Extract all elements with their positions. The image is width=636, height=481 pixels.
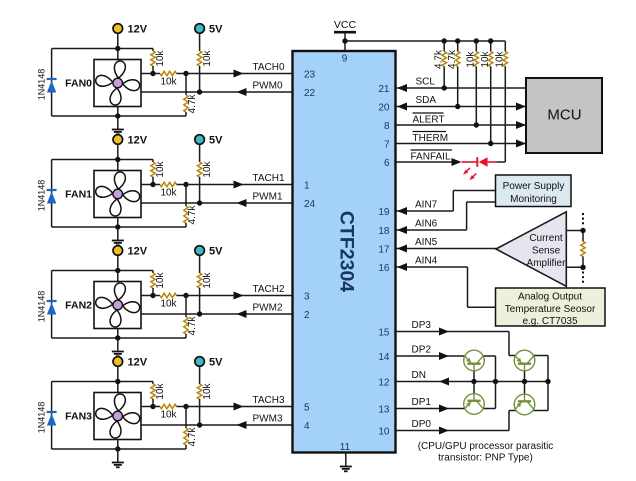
svg-text:13: 13 <box>378 404 390 415</box>
svg-text:19: 19 <box>378 207 390 218</box>
wire DN net <box>396 381 549 383</box>
junction 12V rail (row 0) <box>115 46 120 51</box>
arrow DP3 <box>439 328 449 336</box>
wire AIN6 net <box>396 202 496 230</box>
wire fan tach stub (row 1) <box>141 184 153 186</box>
wire 12V drop to fan (row 0) <box>117 34 119 60</box>
resistor 10k tach pull-up to 12V (row 3) <box>151 382 155 407</box>
svg-text:4.7k: 4.7k <box>433 49 444 69</box>
resistor 10k tach pull-up to 12V (row 2) <box>151 271 155 296</box>
svg-text:AIN7: AIN7 <box>415 200 438 211</box>
svg-text:10k: 10k <box>155 271 166 288</box>
svg-text:10k: 10k <box>202 160 213 177</box>
resistor 4.7k tach to ground (row 2) <box>184 296 188 339</box>
MCU block <box>526 78 602 153</box>
resistor shunt <box>581 231 585 268</box>
junction SCL pull-up <box>442 85 447 90</box>
junction DN/Q1Q3 collector <box>493 379 498 384</box>
wire fan tach stub (row 0) <box>141 73 153 75</box>
resistor 10k pwm pull-up to 5V (row 0) <box>197 34 201 92</box>
wire 12V rail (row 2) <box>52 270 153 272</box>
transistor Q4 (PNP) <box>514 394 535 415</box>
svg-text:4: 4 <box>304 421 310 432</box>
junction tach pull-up (row 3) <box>150 404 155 409</box>
arrow TACH0 <box>234 70 244 78</box>
svg-text:TACH0: TACH0 <box>253 62 285 73</box>
svg-text:7: 7 <box>384 139 390 150</box>
wire Q1 base stem <box>473 371 475 382</box>
arrow SDA into MCU <box>516 103 526 111</box>
resistor 4.7k pull-up (col 1) <box>442 41 446 88</box>
svg-text:AIN4: AIN4 <box>415 256 438 267</box>
resistor 10k tach pull-up to 12V (row 0) <box>151 49 155 74</box>
svg-text:24: 24 <box>304 199 316 210</box>
wire DP2 net <box>396 355 471 357</box>
svg-text:SCL: SCL <box>416 77 436 88</box>
12V supply (fan row 1) <box>113 135 123 145</box>
wire TACH2 line <box>186 295 293 297</box>
op-amp current sense amplifier <box>496 212 566 286</box>
wire fan tach stub (row 2) <box>141 295 153 297</box>
resistor 4.7k tach to ground (row 1) <box>184 185 188 228</box>
wire VCC pull-up rail <box>345 40 505 42</box>
svg-text:1N4148: 1N4148 <box>36 291 46 323</box>
wire Q4 base stem <box>524 382 526 395</box>
ground (chip pin 11) <box>340 453 352 472</box>
LED emission arrows <box>463 168 476 180</box>
svg-text:2: 2 <box>304 310 310 321</box>
op-amp/controller IC U1 CTF2304 <box>293 51 396 453</box>
junction pwm pull-up (row 0) <box>197 89 202 94</box>
resistor 10k pwm pull-up to 5V (row 3) <box>197 367 201 425</box>
diode 1N4148 (row 1) <box>47 160 57 228</box>
wire PWM3 line <box>141 424 293 426</box>
svg-text:1N4148: 1N4148 <box>36 69 46 101</box>
wire TACH0 line <box>186 73 293 75</box>
wire AIN5 net <box>396 248 497 250</box>
wire AIN4 net <box>396 267 496 307</box>
svg-text:15: 15 <box>378 327 390 338</box>
wire fan bottom stem (row 0) <box>117 107 119 117</box>
wire ground rail (row 2) <box>52 337 186 339</box>
ground symbol (row 2) <box>112 338 124 356</box>
diode 1N4148 (row 2) <box>47 271 57 339</box>
junction pwm pull-up (row 2) <box>197 311 202 316</box>
svg-text:10k: 10k <box>160 299 177 310</box>
fan box FAN1 <box>94 171 141 218</box>
svg-text:3: 3 <box>304 291 310 302</box>
label ALERT (active low) <box>413 113 445 126</box>
5V supply (fan row 3) <box>195 357 205 367</box>
arrow TACH2 <box>234 292 244 300</box>
svg-text:4.7k: 4.7k <box>187 316 198 336</box>
wire SDA <box>396 106 527 108</box>
junction tach node (row 0) <box>183 71 188 76</box>
svg-text:10k: 10k <box>480 50 491 67</box>
resistor 10k pwm pull-up to 5V (row 2) <box>197 256 201 314</box>
svg-text:e.g. CT7035: e.g. CT7035 <box>522 316 577 327</box>
arrow PWM2 <box>237 310 247 318</box>
wire sense- stub <box>566 266 583 268</box>
wire dashed supply below shunt <box>582 272 584 286</box>
svg-text:PWM0: PWM0 <box>253 81 283 92</box>
resistor 10k series tach (row 2) <box>153 293 186 297</box>
arrow AIN6 into chip <box>397 226 407 234</box>
svg-text:1N4148: 1N4148 <box>36 180 46 212</box>
svg-text:TACH3: TACH3 <box>253 395 285 406</box>
svg-text:Sense: Sense <box>532 246 561 257</box>
arrow DN into chip <box>439 378 449 386</box>
svg-text:18: 18 <box>378 226 390 237</box>
svg-text:DP0: DP0 <box>412 419 432 430</box>
svg-text:1: 1 <box>304 180 310 191</box>
junction ground rail (row 0) <box>115 113 120 118</box>
wire THERM <box>396 143 527 145</box>
wire FANFAIL <box>396 161 453 163</box>
wire PWM1 line <box>141 202 293 204</box>
wire ground rail (row 1) <box>52 226 186 228</box>
svg-text:10k: 10k <box>466 50 477 67</box>
svg-text:12V: 12V <box>128 135 148 147</box>
wire 12V drop to fan (row 3) <box>117 367 119 393</box>
wire ALERT <box>396 124 527 126</box>
svg-text:AIN6: AIN6 <box>415 219 438 230</box>
junction tach node (row 2) <box>183 293 188 298</box>
junction DN/Q2Q4 collector <box>545 379 550 384</box>
svg-text:VCC: VCC <box>334 19 357 31</box>
fan blades and hub (FAN3) <box>95 393 140 438</box>
svg-text:16: 16 <box>378 263 390 274</box>
12V supply (fan row 2) <box>113 246 123 256</box>
junction 12V rail (row 3) <box>115 379 120 384</box>
wire fan tach stub (row 3) <box>141 406 153 408</box>
svg-text:transistor: PNP Type): transistor: PNP Type) <box>438 453 533 464</box>
svg-text:Current: Current <box>529 233 563 244</box>
junction 12V rail (row 2) <box>115 268 120 273</box>
svg-text:PWM1: PWM1 <box>253 192 283 203</box>
junction tach pull-up (row 2) <box>150 293 155 298</box>
resistor 10k pull-up (col 5) <box>503 41 507 162</box>
svg-text:12V: 12V <box>128 24 148 36</box>
svg-text:10k: 10k <box>202 49 213 66</box>
fan box FAN3 <box>94 393 141 440</box>
svg-text:5V: 5V <box>209 357 223 369</box>
transistor Q1 (PNP) <box>464 350 485 371</box>
diode 1N4148 (row 0) <box>47 49 57 117</box>
svg-text:FAN0: FAN0 <box>65 78 92 90</box>
svg-text:FAN3: FAN3 <box>65 411 92 423</box>
resistor 10k tach pull-up to 12V (row 1) <box>151 160 155 185</box>
svg-text:10k: 10k <box>160 410 177 421</box>
junction SDA pull-up <box>455 104 460 109</box>
svg-text:10k: 10k <box>495 50 506 67</box>
arrow AIN7 into chip <box>397 207 407 215</box>
arrow TACH3 <box>234 403 244 411</box>
VCC rail symbol <box>334 31 356 34</box>
junction sense+ <box>580 228 585 233</box>
diode 1N4148 (row 3) <box>47 382 57 450</box>
wire ground rail (row 3) <box>52 448 186 450</box>
svg-text:Power Supply: Power Supply <box>503 181 565 192</box>
12V supply (fan row 0) <box>113 24 123 34</box>
svg-text:THERM: THERM <box>413 133 449 144</box>
svg-text:23: 23 <box>304 69 316 80</box>
svg-text:Temperature Seosor: Temperature Seosor <box>505 304 596 315</box>
svg-text:9: 9 <box>342 54 348 65</box>
svg-text:21: 21 <box>378 84 390 95</box>
transistor Q2 (PNP) <box>514 350 535 371</box>
wire Q3 base stem <box>473 382 475 394</box>
fan box FAN0 <box>94 60 141 107</box>
svg-text:10: 10 <box>378 426 390 437</box>
junction ALERT pull-up <box>474 122 479 127</box>
12V supply (fan row 3) <box>113 357 123 367</box>
svg-text:Analog Output: Analog Output <box>518 292 582 303</box>
svg-text:TACH1: TACH1 <box>253 173 285 184</box>
wire fan bottom stem (row 2) <box>117 329 119 339</box>
arrow PWM1 <box>237 199 247 207</box>
label THERM (active low) <box>413 132 449 145</box>
note CPU/GPU parasitic transistor <box>418 441 554 464</box>
svg-text:(CPU/GPU processor parasitic: (CPU/GPU processor parasitic <box>418 441 554 452</box>
wire 12V drop to fan (row 1) <box>117 145 119 171</box>
svg-text:12V: 12V <box>128 246 148 258</box>
wire SCL <box>396 87 527 89</box>
svg-text:DP1: DP1 <box>412 397 432 408</box>
fan blades and hub (FAN0) <box>95 60 140 105</box>
svg-text:Monitoring: Monitoring <box>510 194 557 205</box>
fan blades and hub (FAN1) <box>95 171 140 216</box>
wire Q2/Q4 collector to DN <box>529 356 548 411</box>
svg-text:17: 17 <box>378 244 390 255</box>
ground symbol (row 0) <box>112 116 124 134</box>
svg-text:10k: 10k <box>155 160 166 177</box>
wire ground rail (row 0) <box>52 115 186 117</box>
svg-text:10k: 10k <box>202 271 213 288</box>
wire Q2 base stem <box>524 371 526 382</box>
junction DN/Q1Q3 base <box>471 379 476 384</box>
svg-text:4.7k: 4.7k <box>187 427 198 447</box>
arrow TACH1 <box>234 181 244 189</box>
svg-text:FANFAIL: FANFAIL <box>411 152 451 163</box>
label Analog Output Temperature Seosor e.g. CT7035 <box>505 292 596 328</box>
wire DP3 net <box>396 332 521 356</box>
wire fan bottom stem (row 3) <box>117 440 119 450</box>
junction tach pull-up (row 1) <box>150 182 155 187</box>
junction tach pull-up (row 0) <box>150 71 155 76</box>
svg-text:DN: DN <box>412 370 426 381</box>
arrow THERM into MCU <box>516 140 526 148</box>
svg-text:20: 20 <box>378 102 390 113</box>
junction DN/Q2Q4 base <box>522 379 527 384</box>
wire VCC to pin 9 <box>344 32 346 51</box>
svg-text:FAN2: FAN2 <box>65 300 92 312</box>
arrow SDA into chip <box>397 103 407 111</box>
arrow AIN5 into chip <box>397 245 407 253</box>
svg-text:AIN5: AIN5 <box>415 237 438 248</box>
svg-text:PWM2: PWM2 <box>253 303 283 314</box>
wire DP0 net <box>396 411 521 431</box>
svg-text:5V: 5V <box>209 24 223 36</box>
wire 12V drop to fan (row 2) <box>117 256 119 282</box>
svg-text:22: 22 <box>304 88 316 99</box>
wire TACH1 line <box>186 184 293 186</box>
ground symbol (row 3) <box>112 449 124 467</box>
wire PWM0 line <box>141 91 293 93</box>
svg-text:10k: 10k <box>202 382 213 399</box>
wire AIN7 net <box>396 191 496 212</box>
junction sense- <box>580 265 585 270</box>
svg-text:11: 11 <box>340 442 351 453</box>
wire TACH3 line <box>186 406 293 408</box>
transistor Q3 (PNP) <box>464 394 485 415</box>
svg-text:14: 14 <box>378 352 390 363</box>
resistor 10k pull-up (col 3) <box>474 41 478 125</box>
wire PWM2 line <box>141 313 293 315</box>
fan blades and hub (FAN2) <box>95 282 140 327</box>
junction ground rail (row 3) <box>115 446 120 451</box>
label Current Sense Amplifier <box>527 233 567 269</box>
svg-text:MCU: MCU <box>547 107 581 124</box>
resistor 4.7k tach to ground (row 0) <box>184 74 188 117</box>
resistor 10k series tach (row 3) <box>153 404 186 408</box>
junction ground rail (row 2) <box>115 335 120 340</box>
wire sense+ stub <box>566 230 583 232</box>
resistor 4.7k tach to ground (row 3) <box>184 407 188 450</box>
wire 12V rail (row 1) <box>52 159 153 161</box>
junction rail col 1 <box>442 38 447 43</box>
label Power Supply Monitoring <box>503 181 565 205</box>
svg-text:6: 6 <box>384 158 390 169</box>
wire DP1 net <box>396 408 471 410</box>
ground symbol (row 1) <box>112 227 124 245</box>
svg-text:TACH2: TACH2 <box>253 284 285 295</box>
svg-text:12V: 12V <box>128 357 148 369</box>
resistor 10k pwm pull-up to 5V (row 1) <box>197 145 201 203</box>
arrow DP0 <box>439 427 449 435</box>
junction tach node (row 3) <box>183 404 188 409</box>
junction THERM pull-up <box>488 141 493 146</box>
junction ground rail (row 1) <box>115 224 120 229</box>
Power Supply Monitoring block <box>496 175 572 207</box>
junction pwm pull-up (row 3) <box>197 422 202 427</box>
svg-text:10k: 10k <box>160 77 177 88</box>
svg-text:4.7k: 4.7k <box>447 49 458 69</box>
Analog Output Temperature Sensor block <box>496 288 606 326</box>
arrow AIN4 into chip <box>397 263 407 271</box>
junction rail col 4 <box>488 38 493 43</box>
svg-text:10k: 10k <box>155 49 166 66</box>
arrow DP1 <box>439 405 449 413</box>
svg-text:8: 8 <box>384 121 390 132</box>
junction rail col 2 <box>455 38 460 43</box>
svg-text:10k: 10k <box>160 188 177 199</box>
svg-text:4.7k: 4.7k <box>187 205 198 225</box>
svg-text:DP2: DP2 <box>412 345 432 356</box>
resistor 10k series tach (row 1) <box>153 182 186 186</box>
svg-text:5: 5 <box>304 402 310 413</box>
wire Q1 collector to DN <box>478 356 496 409</box>
resistor 10k series tach (row 0) <box>153 71 186 75</box>
5V supply (fan row 0) <box>195 24 205 34</box>
svg-text:Amplifier: Amplifier <box>527 258 567 269</box>
arrow PWM3 <box>237 421 247 429</box>
junction tach node (row 1) <box>183 182 188 187</box>
svg-text:5V: 5V <box>209 246 223 258</box>
svg-text:12: 12 <box>378 377 390 388</box>
wire 12V rail (row 0) <box>52 48 153 50</box>
label FANFAIL (active low) <box>411 150 453 163</box>
arrow ALERT into MCU <box>516 121 526 129</box>
arrow FANFAIL out of chip <box>452 158 462 166</box>
wire fan bottom stem (row 1) <box>117 218 119 228</box>
svg-text:4.7k: 4.7k <box>187 94 198 114</box>
fan box FAN2 <box>94 282 141 329</box>
svg-text:ALERT: ALERT <box>413 115 445 126</box>
arrow DP2 <box>439 352 449 360</box>
svg-text:PWM3: PWM3 <box>253 414 283 425</box>
svg-text:1N4148: 1N4148 <box>36 402 46 434</box>
svg-text:CTF2304: CTF2304 <box>336 211 358 292</box>
svg-text:FAN1: FAN1 <box>65 189 92 201</box>
5V supply (fan row 1) <box>195 135 205 145</box>
5V supply (fan row 2) <box>195 246 205 256</box>
arrow PWM0 <box>237 88 247 96</box>
junction rail col 3 <box>474 38 479 43</box>
arrow SCL into chip <box>397 84 407 92</box>
junction pwm pull-up (row 1) <box>197 200 202 205</box>
svg-text:SDA: SDA <box>416 95 437 106</box>
junction VCC <box>342 38 347 43</box>
resistor 4.7k pull-up (col 2) <box>456 41 460 107</box>
wire dashed supply above shunt <box>582 213 584 226</box>
resistor 10k pull-up (col 4) <box>489 41 493 144</box>
wire 12V rail (row 3) <box>52 381 153 383</box>
svg-text:5V: 5V <box>209 135 223 147</box>
svg-text:DP3: DP3 <box>412 320 432 331</box>
LED D1 fan-fail indicator <box>462 157 506 167</box>
junction 12V rail (row 1) <box>115 157 120 162</box>
svg-text:10k: 10k <box>155 382 166 399</box>
